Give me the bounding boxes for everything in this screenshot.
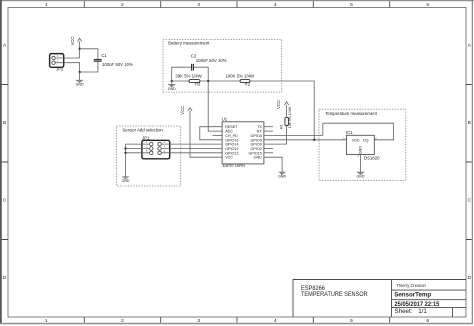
- svg-text:GPIO4: GPIO4: [251, 134, 262, 138]
- svg-text:GND: GND: [76, 82, 84, 86]
- svg-text:IC1: IC1: [346, 130, 353, 135]
- svg-text:D: D: [468, 275, 472, 281]
- capacitor C2: [191, 53, 227, 70]
- svg-text:GPIO0: GPIO0: [251, 143, 262, 147]
- node: VCC junction: [78, 48, 80, 50]
- connector JP1: [142, 135, 170, 159]
- svg-text:R2: R2: [245, 82, 251, 87]
- JP2 pin 1: [52, 56, 55, 59]
- svg-text:39K 5% 1/4W: 39K 5% 1/4W: [175, 74, 202, 79]
- wire DS1820 gnd pin: [360, 155, 362, 173]
- wire JP2 pin1 to VCC node: [64, 57, 80, 59]
- ground (DS1820): [357, 172, 365, 178]
- connector JP2: [50, 54, 64, 72]
- svg-text:CH_PD: CH_PD: [225, 134, 238, 138]
- JP2 pin 2: [52, 61, 55, 64]
- svg-text:GPIO13: GPIO13: [225, 151, 238, 155]
- wire GPIO5 to DS1820 pin1: [264, 139, 347, 141]
- wire C2 left branch: [172, 67, 191, 81]
- svg-text:1: 1: [45, 318, 48, 324]
- svg-text:GPIO14: GPIO14: [225, 143, 238, 147]
- wire CH_PD stub: [213, 134, 223, 136]
- svg-text:JP1: JP1: [142, 135, 150, 140]
- resistor R2: [225, 74, 255, 87]
- wire GPIO4 to DS1820 DQ loop: [264, 123, 394, 140]
- svg-text:VCC: VCC: [180, 106, 185, 115]
- svg-text:GND: GND: [359, 146, 363, 155]
- svg-text:SensorTemp: SensorTemp: [394, 291, 431, 298]
- svg-text:Thierry Cresson: Thierry Cresson: [397, 283, 427, 288]
- wire VCC node to C1 top: [80, 49, 98, 60]
- wire gnd node to R3: [172, 80, 189, 82]
- power flag VCC (ESP): [180, 106, 222, 157]
- svg-text:TX: TX: [257, 125, 262, 129]
- resistor R1 (pullup): [279, 105, 292, 144]
- svg-text:4: 4: [274, 318, 277, 324]
- IC U1: [222, 117, 264, 168]
- svg-text:Temperature measurement: Temperature measurement: [325, 111, 377, 116]
- svg-text:100nF 50V 10%: 100nF 50V 10%: [102, 62, 133, 67]
- wire JP2 pin2 down to gnd node: [64, 63, 80, 72]
- svg-text:TEMPERATURE SENSOR: TEMPERATURE SENSOR: [301, 291, 368, 298]
- svg-text:3: 3: [197, 2, 200, 8]
- node junctions on JP1 gnd rail: [124, 147, 126, 149]
- svg-text:5: 5: [350, 2, 353, 8]
- svg-text:GND: GND: [357, 174, 365, 178]
- wire GPIO2 stub: [264, 148, 273, 150]
- power flag VCC (R1): [276, 100, 289, 109]
- wire C1 bottom to gnd node: [80, 61, 98, 72]
- svg-text:10k 5% 1/4W: 10k 5% 1/4W: [288, 106, 292, 128]
- svg-text:RESET: RESET: [225, 125, 238, 129]
- svg-text:25/05/2017 22:15: 25/05/2017 22:15: [395, 301, 440, 308]
- ground (ESP): [278, 172, 286, 178]
- svg-text:4: 4: [274, 2, 277, 8]
- IC1 DS1820: [343, 130, 380, 160]
- svg-text:6: 6: [426, 2, 429, 8]
- svg-text:2: 2: [121, 2, 124, 8]
- node: divider mid: [207, 80, 209, 82]
- wire ESP GND pin: [264, 157, 282, 172]
- svg-text:C: C: [468, 197, 472, 203]
- svg-text:ESP07-16PIN: ESP07-16PIN: [223, 163, 245, 168]
- node: battery sense on DQ line: [313, 139, 315, 141]
- JP2 pin stubs: [55, 58, 64, 63]
- node: gnd junction: [78, 71, 80, 73]
- resistor R3: [175, 74, 202, 87]
- wire RX stub: [264, 130, 273, 132]
- svg-text:GND: GND: [278, 174, 286, 178]
- svg-text:R1: R1: [279, 124, 283, 129]
- wire GPIO0 to R1: [264, 143, 287, 145]
- wires JP1 left to gnd: [126, 144, 142, 177]
- wires JP1 right to ESP GPIO14/12/13: [170, 144, 222, 153]
- wire R2 to battery sense vertical: [250, 81, 314, 140]
- svg-text:100nF 50V 10%: 100nF 50V 10%: [196, 58, 227, 63]
- svg-text:GND: GND: [254, 156, 263, 160]
- svg-text:JP2: JP2: [56, 66, 64, 71]
- svg-text:VCC: VCC: [225, 156, 233, 160]
- wire RESET-GPIO16 loop: [200, 127, 222, 140]
- svg-text:1: 1: [45, 2, 48, 8]
- JP1 pins 1-6: [150, 142, 154, 146]
- svg-text:C: C: [3, 197, 7, 203]
- svg-text:B: B: [3, 120, 6, 126]
- svg-text:VDD: VDD: [352, 139, 360, 143]
- svg-text:D: D: [3, 275, 7, 281]
- wire C2 right branch: [194, 67, 208, 81]
- svg-text:6: 6: [426, 318, 429, 324]
- svg-text:C1: C1: [101, 53, 107, 58]
- svg-text:DS1820: DS1820: [364, 155, 380, 160]
- svg-text:Battery measurement: Battery measurement: [168, 40, 210, 45]
- svg-text:VCC: VCC: [276, 100, 281, 109]
- ground (sensor block): [122, 177, 130, 183]
- svg-text:DQ: DQ: [363, 139, 369, 143]
- svg-text:GPIO15: GPIO15: [248, 151, 261, 155]
- wire GPIO15 stub: [264, 152, 273, 154]
- svg-text:Sensor Add selection: Sensor Add selection: [122, 128, 163, 133]
- svg-text:5: 5: [350, 318, 353, 324]
- svg-text:VCC: VCC: [70, 37, 75, 46]
- svg-text:2: 2: [121, 318, 124, 324]
- wire TX stub: [264, 126, 273, 128]
- wire R3 to R2: [200, 80, 240, 82]
- svg-text:B: B: [468, 120, 471, 126]
- node: C2/R3 left: [171, 80, 173, 82]
- svg-text:3: 3: [197, 318, 200, 324]
- ground (battery block): [168, 81, 176, 91]
- svg-text:Sheet:: Sheet:: [395, 308, 413, 315]
- capacitor C1: [94, 53, 133, 67]
- U1 right pin names: [248, 125, 262, 160]
- svg-text:1/1: 1/1: [418, 308, 427, 315]
- svg-text:U1: U1: [222, 117, 228, 122]
- U1 left pin names: [225, 125, 238, 160]
- wire divider mid to ADC: [208, 81, 222, 131]
- svg-text:R3: R3: [195, 81, 201, 86]
- svg-text:GND: GND: [168, 87, 176, 91]
- ground (below JP2): [76, 72, 84, 86]
- svg-text:GND: GND: [122, 179, 130, 183]
- power flag VCC (top left): [70, 37, 82, 58]
- svg-text:100K 5% 1/4W: 100K 5% 1/4W: [225, 74, 255, 79]
